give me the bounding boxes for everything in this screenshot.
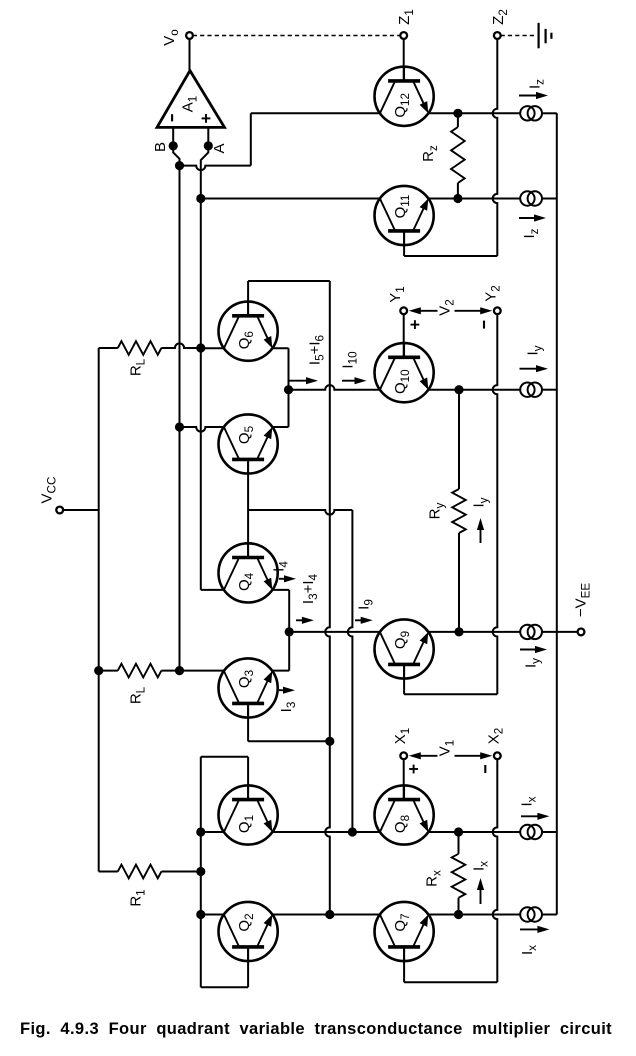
wire Q2 base link xyxy=(247,947,249,987)
label I5+I6 arrow xyxy=(290,380,310,382)
terminal Z2 xyxy=(494,32,501,39)
wire Q12 collector line xyxy=(251,112,380,114)
op-amp A1 xyxy=(157,71,225,128)
label I10 arrow xyxy=(342,380,358,382)
label I3+I4 arrow xyxy=(296,619,305,621)
transistor Q12 xyxy=(375,67,434,126)
label X1 plus xyxy=(409,768,418,770)
node Q3 base junction xyxy=(325,737,334,746)
transistor Q10 xyxy=(375,343,434,402)
wire A lower rail xyxy=(200,757,202,987)
label I3 arrow xyxy=(279,689,286,691)
wire B jog xyxy=(173,146,179,166)
wire Q3 emitter xyxy=(272,670,289,672)
wire op-amp noninv lead xyxy=(207,127,209,145)
transistor Q2 xyxy=(219,902,278,961)
wire Q12 emitter line xyxy=(428,112,520,114)
node RZ top junction xyxy=(453,109,462,118)
wire Y1 lead xyxy=(403,314,405,357)
wire dashed Vo-Z1 xyxy=(193,35,401,37)
wire Q5-Q4 base link xyxy=(247,459,249,557)
wire QB rail xyxy=(325,281,330,915)
wire Q5 collector xyxy=(180,427,224,432)
node R1 junction xyxy=(196,867,205,876)
transistor Q9 xyxy=(375,619,434,678)
wire Q2-Q7 line xyxy=(272,914,380,916)
terminal Y2 xyxy=(494,307,501,314)
wire Q10 emitter line xyxy=(428,389,520,391)
wire Q7 emitter line xyxy=(428,914,520,916)
node QA-Q1 junction xyxy=(348,827,357,836)
wire X1 lead xyxy=(403,759,405,800)
current source IY1 xyxy=(520,383,534,397)
wire Q4 emitter xyxy=(272,589,289,591)
current source IZ1 xyxy=(520,106,534,120)
label Y1 plus xyxy=(411,324,420,326)
wire IZ1 to rail xyxy=(542,112,557,114)
wire xyxy=(189,39,191,71)
node A junction xyxy=(196,194,205,203)
node A-RL1-Q6 junction xyxy=(196,343,205,352)
label Iz top arrow xyxy=(519,95,539,97)
terminal X1 xyxy=(400,752,407,759)
wire IY1 to rail xyxy=(542,389,557,391)
terminal Vo xyxy=(186,32,193,39)
node RX bottom junction xyxy=(454,910,463,919)
wire Q7 base link xyxy=(403,947,405,982)
wire dashed Z2-gnd xyxy=(501,35,537,37)
node B jog junction xyxy=(175,161,184,170)
transistor Q3 xyxy=(219,658,278,717)
transistor Q7 xyxy=(375,902,434,961)
wire QA rail xyxy=(348,510,353,832)
node RY top junction xyxy=(454,385,463,394)
resistor RL1 xyxy=(99,347,118,349)
wire Q3 collector xyxy=(180,670,224,672)
label Iy bottom arrow xyxy=(520,649,538,651)
node I5+I6 junction xyxy=(284,385,293,394)
terminal VCC xyxy=(56,507,63,514)
transistor Q4 xyxy=(219,543,278,602)
svg-text:B: B xyxy=(152,142,169,152)
resistor RL2 xyxy=(99,670,118,672)
label X2 minus xyxy=(484,765,486,773)
resistor R1 xyxy=(99,871,118,873)
node VCC-RL2 junction xyxy=(94,666,103,675)
label Iy top arrow xyxy=(520,368,540,370)
node Q1 collector junction xyxy=(196,827,205,836)
wire A rail xyxy=(200,199,202,590)
label Ix RX arrow xyxy=(480,887,482,904)
wire Q1-Q8 line xyxy=(272,831,380,833)
wire Z2 rail xyxy=(493,39,498,256)
wire B rail xyxy=(179,166,181,671)
wire Q9 base link xyxy=(403,664,405,694)
terminal -VEE xyxy=(578,629,585,636)
node B-RL2-Q3 junction xyxy=(175,666,184,675)
wire VCC rail xyxy=(98,348,100,872)
wire B feedback vert xyxy=(250,113,252,165)
resistor RY xyxy=(458,390,460,489)
label Y2 minus xyxy=(483,321,485,329)
wire Q2 collector xyxy=(201,914,224,916)
wire op-amp inv lead xyxy=(172,127,174,145)
node RY bottom junction xyxy=(454,627,463,636)
label V1 arrows xyxy=(418,755,438,757)
node QB-Q2 junction xyxy=(325,910,334,919)
wire A jog xyxy=(201,146,209,199)
resistor RX xyxy=(458,832,460,854)
transistor Q5 xyxy=(219,414,278,473)
node B xyxy=(169,141,178,150)
resistor RZ xyxy=(457,113,459,127)
wire Y2 rail xyxy=(493,314,498,694)
wire Z1 lead xyxy=(403,39,405,81)
wire Q4 collector xyxy=(201,589,224,591)
wire Q10 collector line I10 xyxy=(289,385,380,390)
current source IX1 xyxy=(520,825,534,839)
wire Q1 base link xyxy=(247,757,249,800)
wire IZ2 to rail xyxy=(542,198,557,200)
label Iy RY arrow xyxy=(480,527,482,543)
transistor Q1 xyxy=(219,785,278,844)
wire VCC tap xyxy=(63,509,99,511)
node Q2 collector junction xyxy=(196,910,205,919)
terminal X2 xyxy=(494,752,501,759)
wire X2 rail xyxy=(493,759,498,982)
wire Q3 base link xyxy=(247,703,249,741)
wire Q6 base link xyxy=(247,281,249,316)
wire Q11 emitter line xyxy=(428,198,520,200)
wire Q1 collector xyxy=(201,831,224,833)
wire Q9 emitter line xyxy=(428,631,520,633)
current source IX2 xyxy=(520,907,534,921)
wire IX2 to rail xyxy=(542,914,557,916)
wire Q6 emitter xyxy=(272,347,288,349)
label Iz bottom arrow xyxy=(519,217,537,219)
wire Q11 collector line xyxy=(201,198,380,200)
label Ix top arrow xyxy=(521,815,540,817)
label Ix bottom arrow xyxy=(520,928,540,930)
transistor Q11 xyxy=(375,186,434,245)
wire Q8 emitter line xyxy=(428,831,520,833)
node RZ bottom junction xyxy=(453,194,462,203)
transistor Q8 xyxy=(375,785,434,844)
wire B feedback horiz xyxy=(180,166,251,171)
node B-Q5 junction xyxy=(175,422,184,431)
wire IY2 to VEE xyxy=(542,631,578,633)
current source IY2 xyxy=(520,625,534,639)
wire Q6 collector xyxy=(201,347,224,349)
wire Q5 base to QA rail xyxy=(248,510,352,515)
svg-text:A: A xyxy=(211,143,228,153)
wire Q5 emitter xyxy=(272,426,288,428)
label I9 arrow xyxy=(355,619,364,621)
label I4 arrow xyxy=(279,578,287,580)
terminal Z1 xyxy=(400,32,407,39)
label V2 arrows xyxy=(418,310,438,312)
node I3+I4 junction xyxy=(285,627,294,636)
wire right rail xyxy=(556,113,558,914)
wire Q9 collector line xyxy=(289,631,380,633)
ground xyxy=(537,23,539,49)
transistor Q6 xyxy=(219,302,278,361)
node A xyxy=(204,141,213,150)
wire Q11 base link xyxy=(403,231,405,256)
terminal Y1 xyxy=(400,307,407,314)
wire IX1 to rail xyxy=(542,831,557,833)
node RX top junction xyxy=(454,827,463,836)
current source IZ2 xyxy=(520,191,534,205)
